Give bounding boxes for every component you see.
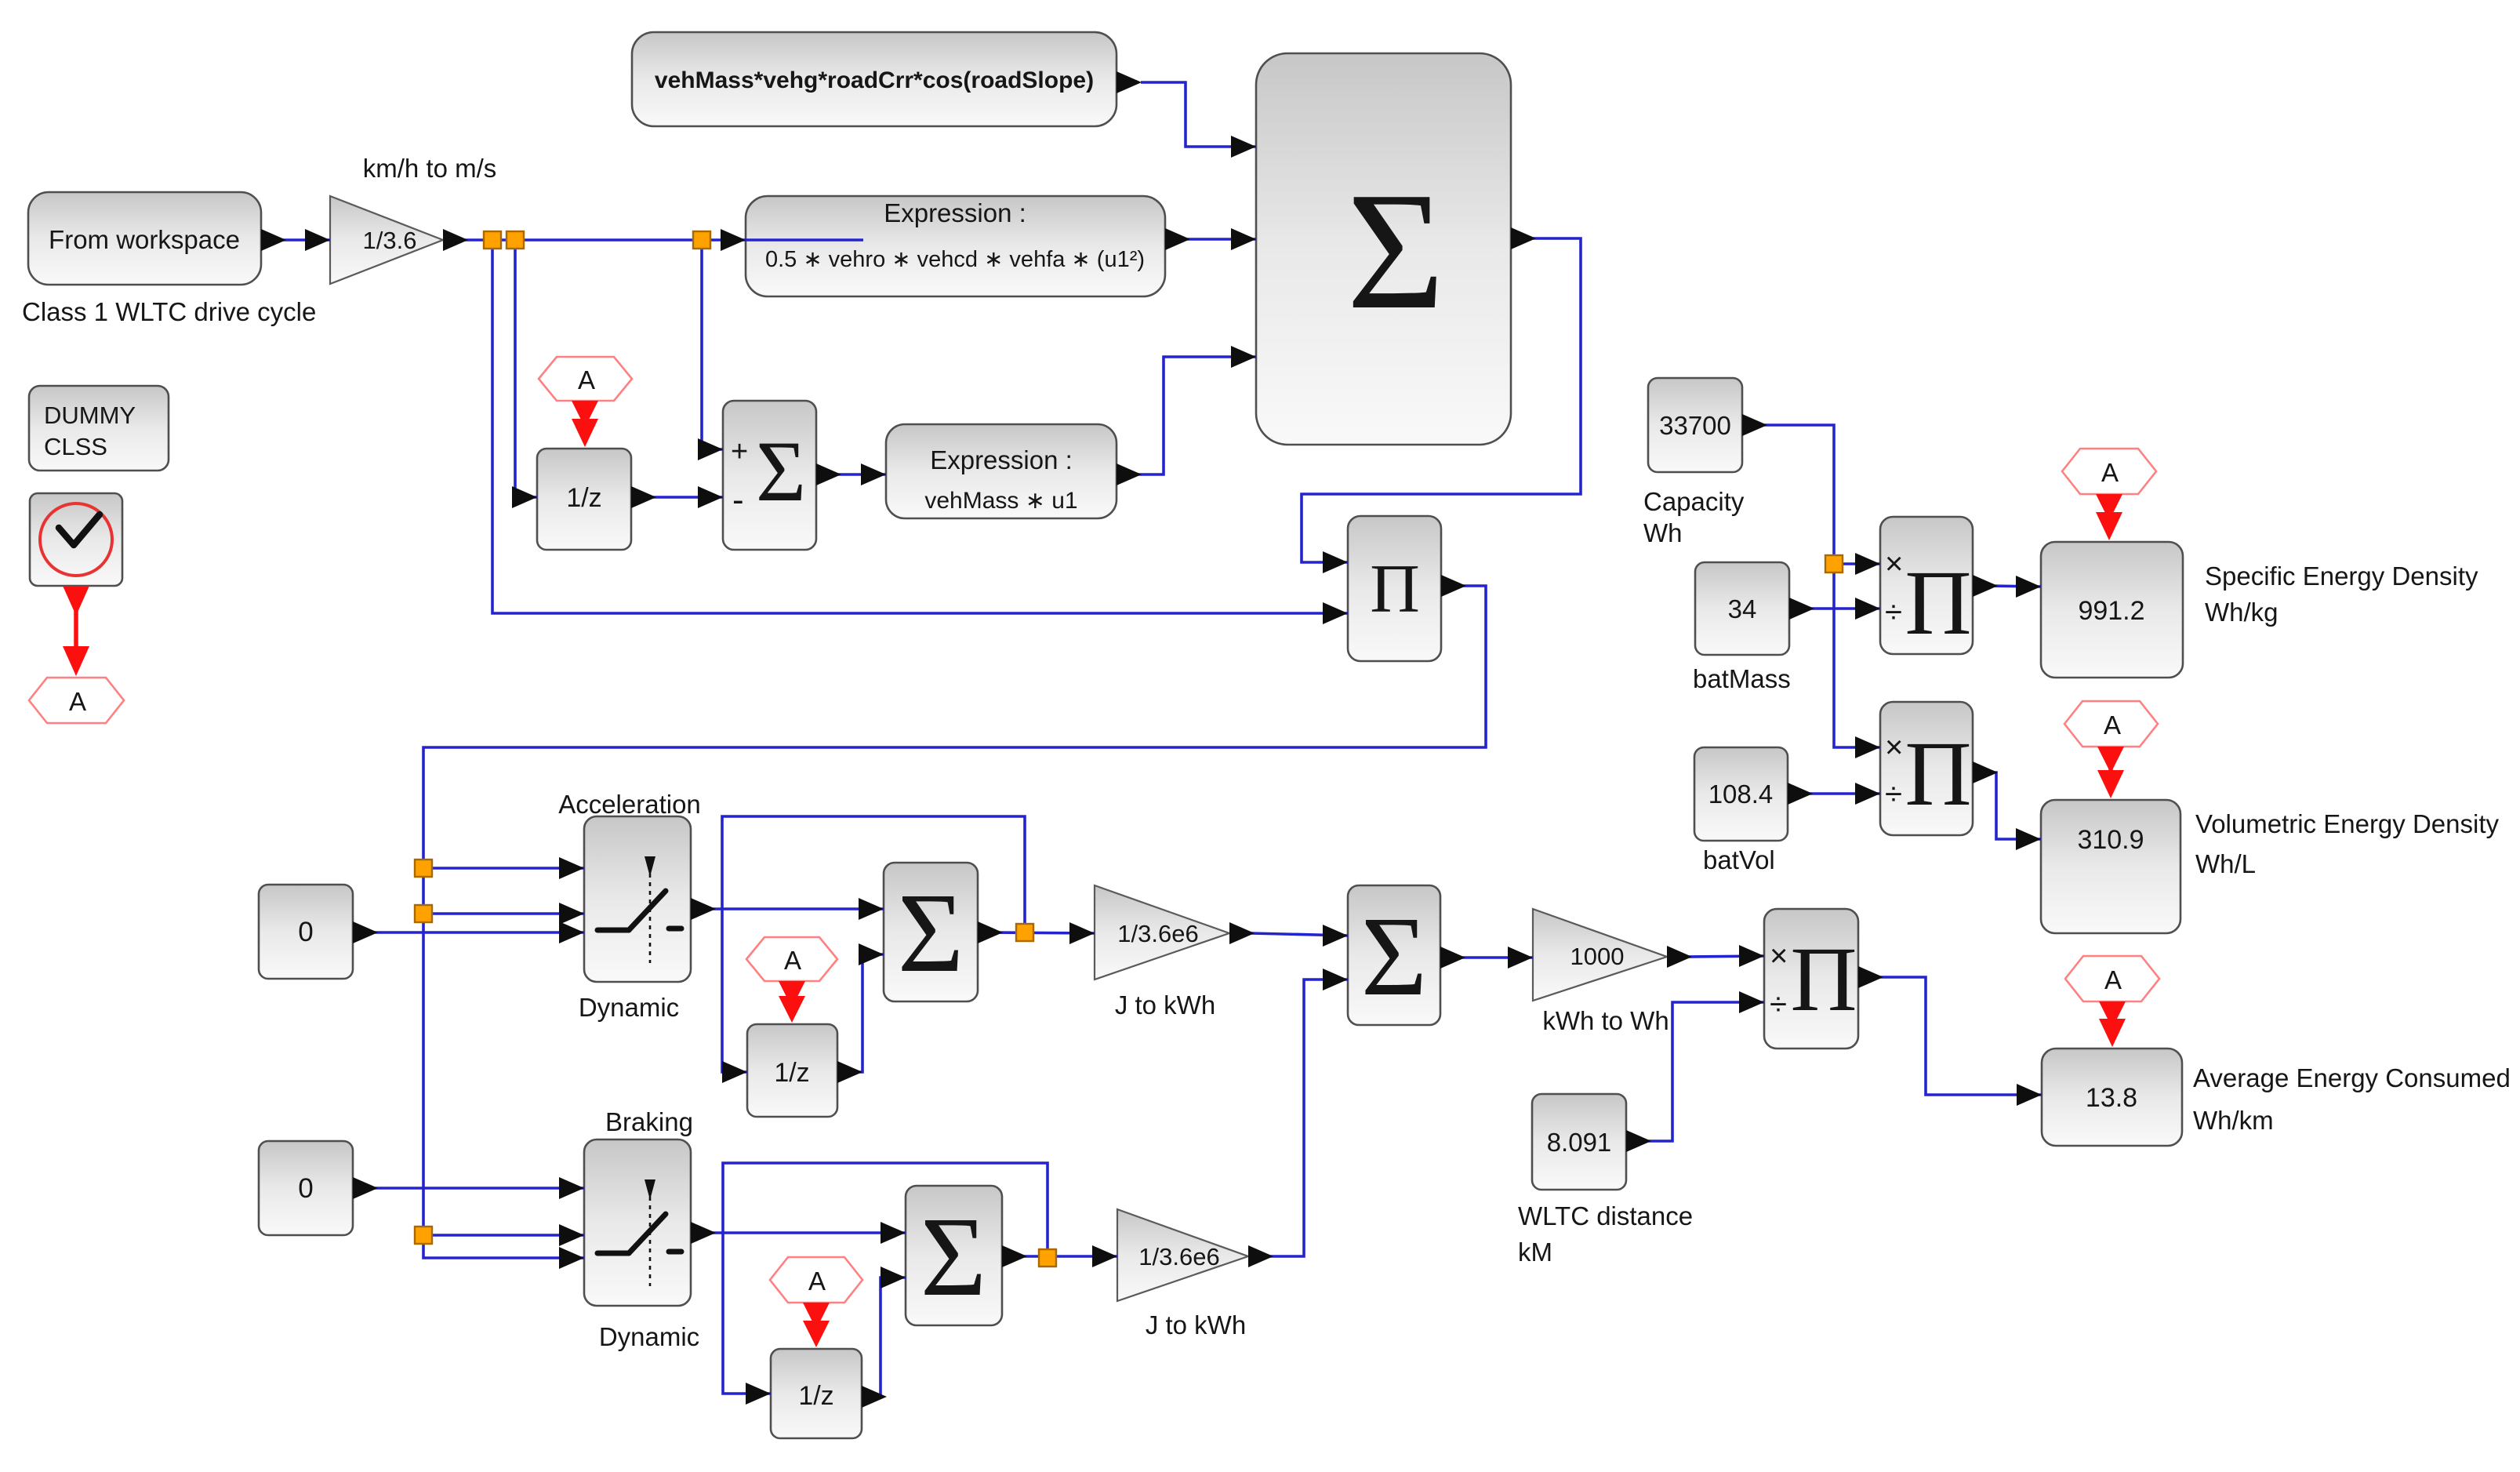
svg-text:Wh/km: Wh/km bbox=[2193, 1106, 2274, 1135]
svg-text:A: A bbox=[69, 687, 86, 716]
wire: trunk junction to switch acceleration input1 bbox=[423, 857, 584, 879]
wire: 1/z upper to sum minus input bbox=[631, 486, 723, 508]
wire: product PI lower output to display 13.8 bbox=[1858, 966, 2042, 1106]
svg-text:Dynamic: Dynamic bbox=[579, 993, 679, 1022]
svg-text:Σ: Σ bbox=[898, 870, 964, 996]
wire: switch braking output to sigma accumulator braking input1 bbox=[691, 1222, 906, 1244]
from link: tag A to display 310.9 bbox=[2097, 747, 2124, 798]
tag: hexagon A above 13.8 bbox=[2065, 956, 2159, 1001]
block: gain 1/3.6e6 braking bbox=[1117, 1209, 1248, 1301]
wire: Expression1 to big sigma input2 bbox=[1165, 228, 1256, 250]
svg-text:Expression :: Expression : bbox=[884, 198, 1026, 227]
svg-text:1/z: 1/z bbox=[774, 1058, 809, 1088]
wire: constant 108.4 to product PI right lower divide input bbox=[1788, 783, 1880, 805]
block: unit delay 1/z upper bbox=[537, 449, 631, 550]
svg-text:Σ: Σ bbox=[1346, 157, 1444, 344]
wire: acceleration feedback loop to 1/z bbox=[722, 816, 1025, 1083]
svg-text:1000: 1000 bbox=[1570, 943, 1625, 970]
tag: hexagon A acceleration row bbox=[746, 937, 837, 981]
svg-text:8.091: 8.091 bbox=[1547, 1128, 1612, 1157]
wire: product PI middle output to switch feed trunk bbox=[423, 575, 1486, 1269]
svg-text:Class 1 WLTC drive cycle: Class 1 WLTC drive cycle bbox=[22, 297, 316, 326]
svg-text:DUMMY: DUMMY bbox=[44, 402, 136, 429]
svg-text:Σ: Σ bbox=[1361, 894, 1427, 1019]
svg-text:Wh/L: Wh/L bbox=[2195, 849, 2256, 878]
svg-text:+: + bbox=[731, 435, 748, 468]
svg-text:Σ: Σ bbox=[920, 1194, 986, 1320]
wire: sigma accumulator acceleration output to gain bbox=[978, 921, 1095, 944]
block: big sigma summation bbox=[1256, 53, 1511, 445]
wire: From workspace to gain bbox=[261, 229, 330, 251]
svg-text:Capacity: Capacity bbox=[1643, 487, 1745, 516]
svg-text:Π: Π bbox=[1905, 722, 1971, 825]
wire: constant 0 acceleration to switch input3 bbox=[353, 921, 584, 943]
svg-text:kWh to Wh: kWh to Wh bbox=[1542, 1006, 1669, 1035]
svg-text:×: × bbox=[1885, 730, 1903, 765]
from link: tag A to 1/z upper bbox=[572, 401, 598, 447]
junction: sigma accumulator acceleration output split bbox=[1016, 924, 1033, 941]
svg-text:Acceleration: Acceleration bbox=[558, 790, 701, 819]
wire: product PI right upper output to display 991.2 bbox=[1973, 575, 2041, 598]
wire: 1/z braking to sigma accumulator braking input2 bbox=[862, 1267, 906, 1408]
wire: switch acceleration output to sigma accumulator input1 bbox=[691, 898, 884, 920]
wire: trunk junction to switch acceleration input2 bbox=[423, 903, 584, 925]
block: unit delay 1/z braking bbox=[771, 1349, 862, 1438]
svg-text:A: A bbox=[578, 365, 595, 394]
svg-text:0: 0 bbox=[298, 1173, 313, 1204]
block: product PI lower bbox=[1764, 909, 1858, 1049]
svg-text:km/h to m/s: km/h to m/s bbox=[363, 154, 497, 183]
wire: constant 0 braking to switch braking input1 bbox=[353, 1177, 584, 1199]
svg-text:÷: ÷ bbox=[1885, 595, 1902, 630]
block: sigma accumulator acceleration bbox=[884, 863, 978, 1001]
block: Expression2 vehMass*u1 bbox=[886, 424, 1117, 518]
svg-text:×: × bbox=[1885, 547, 1903, 581]
wire: constant 8.091 to product PI lower divide input bbox=[1626, 991, 1764, 1152]
block: gain 1/3.6 km/h to m/s bbox=[330, 196, 443, 284]
wire: Expression2 to big sigma input3 bbox=[1117, 346, 1256, 485]
svg-text:WLTC distance: WLTC distance bbox=[1518, 1201, 1693, 1230]
junction: switch feed split acceleration input2 bbox=[415, 905, 432, 922]
svg-text:÷: ÷ bbox=[1770, 987, 1787, 1022]
svg-text:A: A bbox=[2104, 965, 2122, 994]
from link: tag A to 1/z braking bbox=[803, 1303, 830, 1347]
wire: gain output to Expression1 with junctions trunk bbox=[443, 229, 863, 251]
svg-text:1/3.6e6: 1/3.6e6 bbox=[1138, 1243, 1219, 1270]
block: display 13.8 bbox=[2042, 1049, 2182, 1146]
block: switch acceleration bbox=[584, 816, 691, 982]
wire: trunk junction down to product PI middle second input bbox=[492, 247, 1348, 624]
svg-text:13.8: 13.8 bbox=[2086, 1083, 2137, 1113]
svg-text:batVol: batVol bbox=[1703, 845, 1775, 874]
block: product PI middle bbox=[1348, 516, 1441, 661]
wire: sum output to Expression2 bbox=[816, 463, 886, 485]
block: product PI right upper bbox=[1880, 517, 1973, 654]
svg-text:Specific Energy Density: Specific Energy Density bbox=[2205, 562, 2478, 591]
svg-text:Volumetric Energy Density: Volumetric Energy Density bbox=[2195, 809, 2499, 838]
block: constant 108.4 bbox=[1694, 747, 1788, 841]
block: sum +- bbox=[723, 401, 816, 550]
block: sigma main lower bbox=[1348, 885, 1440, 1025]
svg-text:CLSS: CLSS bbox=[44, 433, 107, 460]
junction: switch feed split acceleration input1 bbox=[415, 860, 432, 877]
svg-text:A: A bbox=[2101, 458, 2119, 487]
svg-text:batMass: batMass bbox=[1693, 664, 1791, 693]
wire: gain 1000 to product PI lower x input bbox=[1667, 945, 1764, 968]
block: constant 8.091 bbox=[1532, 1094, 1626, 1190]
from link: tag A to 1/z acceleration bbox=[779, 981, 805, 1023]
from link: tag A to display 13.8 bbox=[2099, 1001, 2126, 1047]
svg-text:J to kWh: J to kWh bbox=[1115, 990, 1215, 1019]
goto link: clock to tag A bbox=[63, 586, 89, 676]
block: gain 1000 kWh to Wh bbox=[1533, 909, 1667, 1001]
svg-text:Wh/kg: Wh/kg bbox=[2205, 598, 2279, 627]
svg-text:A: A bbox=[808, 1267, 826, 1296]
block: Expression1 0.5*vehro*vehcd*vehfa*(u1^2) bbox=[746, 196, 1165, 296]
block: display 310.9 bbox=[2041, 800, 2180, 933]
svg-text:From workspace: From workspace bbox=[49, 225, 240, 254]
wire: gain acceleration to sigma main input1 bbox=[1229, 922, 1348, 947]
svg-text:Braking: Braking bbox=[605, 1107, 693, 1136]
svg-text:33700: 33700 bbox=[1659, 411, 1731, 440]
junction: switch feed split braking input2 bbox=[415, 1227, 432, 1244]
tag: hexagon A above 310.9 bbox=[2064, 701, 2158, 747]
svg-text:1/z: 1/z bbox=[566, 483, 601, 513]
wire: constant 34 to product PI right upper divide input bbox=[1789, 598, 1880, 620]
tag: hexagon A below clock bbox=[29, 678, 124, 723]
svg-text:×: × bbox=[1770, 939, 1788, 973]
block: product PI right lower bbox=[1880, 702, 1973, 835]
svg-text:÷: ÷ bbox=[1885, 777, 1902, 812]
wire: 1/z acceleration to sigma accumulator input2 bbox=[837, 943, 884, 1083]
block: display 991.2 bbox=[2041, 542, 2183, 678]
wire: trunk junction down to sum plus input bbox=[698, 247, 723, 460]
wire: sigma main output to gain 1000 bbox=[1440, 947, 1533, 969]
from link: tag A to display 991.2 bbox=[2096, 494, 2122, 540]
wire: product PI right lower output to display 310.9 bbox=[1973, 761, 2041, 850]
wire: sigma accumulator braking output to gain braking bbox=[1002, 1245, 1117, 1267]
svg-text:Π: Π bbox=[1905, 551, 1971, 654]
svg-text:A: A bbox=[784, 946, 801, 975]
block: sigma accumulator braking bbox=[906, 1186, 1002, 1325]
wire: big sigma output loop to product PI middle input1 bbox=[1302, 227, 1581, 573]
block: From workspace source bbox=[28, 192, 261, 285]
svg-text:vehMass ∗ u1: vehMass ∗ u1 bbox=[924, 488, 1077, 514]
block: constant 34 bbox=[1695, 562, 1789, 655]
svg-text:vehMass*vehg*roadCrr*cos(roadS: vehMass*vehg*roadCrr*cos(roadSlope) bbox=[655, 67, 1094, 93]
svg-text:kM: kM bbox=[1518, 1238, 1552, 1267]
svg-text:J to kWh: J to kWh bbox=[1146, 1310, 1246, 1339]
svg-text:0.5 ∗ vehro ∗ vehcd ∗ vehfa ∗: 0.5 ∗ vehro ∗ vehcd ∗ vehfa ∗ (u1²) bbox=[765, 247, 1145, 272]
svg-text:1/3.6e6: 1/3.6e6 bbox=[1117, 920, 1198, 947]
block: constant 33700 bbox=[1648, 378, 1742, 472]
junction: capacity trunk split bbox=[1825, 555, 1843, 572]
svg-text:1/z: 1/z bbox=[798, 1381, 833, 1411]
block: constant 0 braking bbox=[259, 1141, 353, 1235]
svg-text:1/3.6: 1/3.6 bbox=[363, 227, 417, 254]
svg-text:Σ: Σ bbox=[756, 423, 806, 519]
tag: hexagon A braking row bbox=[770, 1257, 862, 1303]
svg-text:Π: Π bbox=[1370, 551, 1420, 627]
block: unit delay 1/z acceleration bbox=[747, 1024, 837, 1117]
wire: trunk junction down to 1/z upper input bbox=[512, 247, 537, 508]
junction: gain trunk split 3 bbox=[693, 231, 710, 249]
svg-text:310.9: 310.9 bbox=[2077, 825, 2144, 855]
wire: junction to product PI right upper x input bbox=[1834, 553, 1880, 575]
svg-text:Expression :: Expression : bbox=[930, 445, 1073, 474]
svg-text:Dynamic: Dynamic bbox=[599, 1322, 699, 1351]
wire: braking feedback loop to 1/z braking bbox=[723, 1163, 1048, 1405]
block: gain 1/3.6e6 acceleration bbox=[1095, 885, 1229, 980]
wire: constant 33700 to product PI right trunk bbox=[1742, 414, 1880, 758]
block: constant 0 acceleration bbox=[259, 885, 353, 979]
wire: trunk junction to switch braking input2 bbox=[423, 1224, 584, 1246]
svg-text:0: 0 bbox=[298, 917, 313, 947]
svg-text:Wh: Wh bbox=[1643, 518, 1683, 547]
wire: gain braking to sigma main input2 bbox=[1248, 969, 1348, 1267]
junction: gain trunk split 1 bbox=[484, 231, 501, 249]
svg-text:34: 34 bbox=[1728, 594, 1757, 623]
svg-text:108.4: 108.4 bbox=[1708, 780, 1774, 809]
block: DUMMY CLSS bbox=[29, 386, 169, 471]
tag: hexagon A above 991.2 bbox=[2062, 449, 2156, 494]
block: expression vehMass*vehg*roadCrr*cos(roadSlope) bbox=[632, 32, 1117, 126]
svg-text:Average Energy Consumed: Average Energy Consumed bbox=[2193, 1063, 2511, 1092]
svg-text:A: A bbox=[2104, 711, 2121, 740]
block: switch braking bbox=[584, 1139, 691, 1306]
junction: sigma accumulator braking output split bbox=[1039, 1249, 1056, 1267]
tag: hexagon A above 1/z upper bbox=[539, 357, 632, 401]
svg-text:991.2: 991.2 bbox=[2078, 596, 2144, 626]
junction: gain trunk split 2 bbox=[507, 231, 524, 249]
svg-text:-: - bbox=[732, 481, 744, 519]
wire: vehMass expression to big sigma input1 bbox=[1117, 71, 1256, 158]
svg-text:Π: Π bbox=[1790, 928, 1857, 1030]
block: clock bbox=[30, 493, 122, 586]
